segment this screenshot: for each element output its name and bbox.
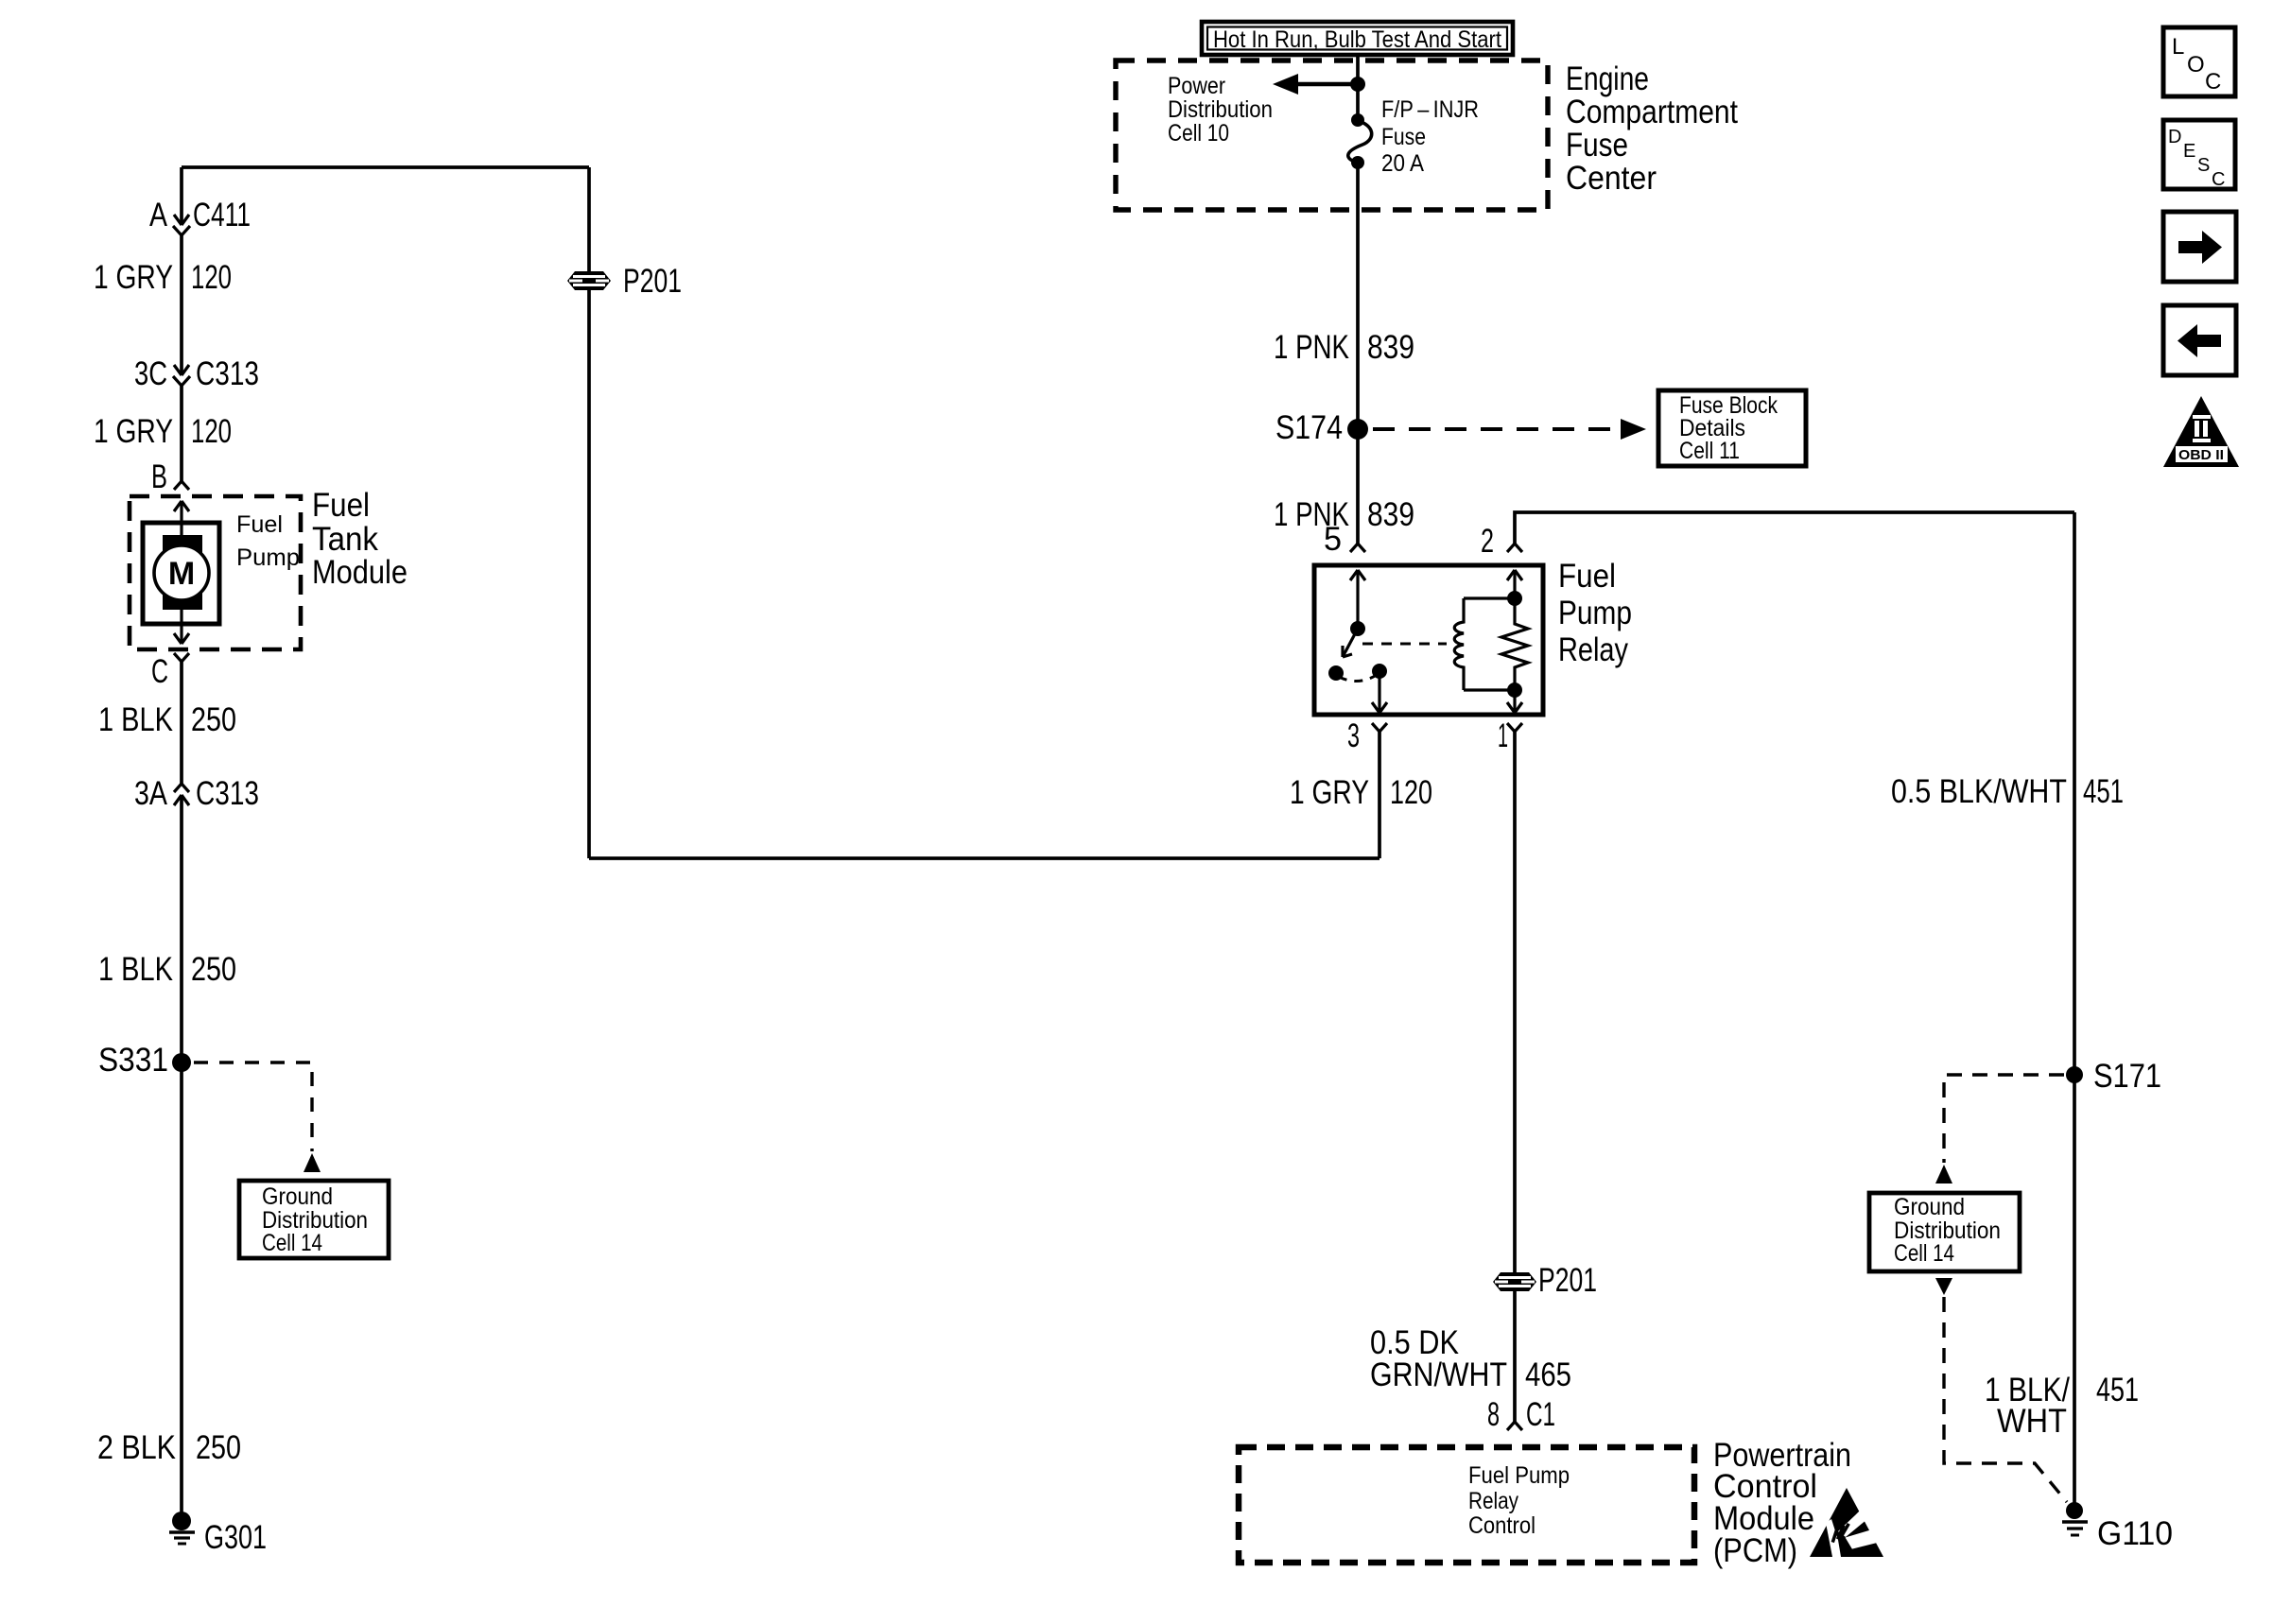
arrowhead triangle below ground distribution box — [1935, 1278, 1952, 1295]
svg-text:451: 451 — [2083, 773, 2124, 810]
relay switch dashed arc to pin3 contact — [1339, 675, 1377, 682]
LOC icon box — [2163, 27, 2235, 96]
arrow to power distribution — [1273, 74, 1356, 95]
svg-text:S: S — [2197, 155, 2210, 176]
svg-text:L: L — [2172, 34, 2184, 60]
svg-text:465: 465 — [1525, 1356, 1571, 1393]
svg-text:GRN/WHT: GRN/WHT — [1370, 1356, 1507, 1393]
svg-text:P201: P201 — [623, 263, 682, 300]
svg-text:G301: G301 — [204, 1519, 267, 1556]
svg-text:S171: S171 — [2093, 1058, 2161, 1095]
coil junction dots — [1507, 591, 1522, 606]
relay pin 3 connector below box — [1372, 723, 1387, 732]
fuse F/P-INJR 20A — [1348, 113, 1372, 169]
svg-text:120: 120 — [191, 413, 232, 450]
relay pin 3 internal arrow — [1372, 671, 1387, 713]
powertrain control module dashed box — [1239, 1447, 1694, 1563]
svg-text:Cell 14: Cell 14 — [262, 1230, 322, 1256]
svg-text:Distribution: Distribution — [1168, 96, 1273, 123]
ESD sensitive device symbol — [1810, 1488, 1886, 1557]
back arrow icon box — [2163, 305, 2236, 375]
svg-text:A: A — [149, 197, 168, 233]
wire 1 GRY 120 segment — [180, 235, 183, 374]
svg-text:Power: Power — [1168, 73, 1225, 99]
svg-text:20 A: 20 A — [1381, 150, 1424, 177]
connector C313 (pin 3C) — [173, 365, 190, 386]
svg-text:250: 250 — [191, 701, 236, 738]
svg-text:Pump: Pump — [1558, 595, 1632, 631]
svg-text:Fuel Pump: Fuel Pump — [1468, 1462, 1570, 1489]
svg-text:Fuse: Fuse — [1566, 127, 1628, 164]
engine compartment fuse center dashed box — [1116, 60, 1548, 210]
svg-text:WHT: WHT — [1997, 1403, 2067, 1440]
wire top horizontal from left branch to P201 branch — [182, 165, 589, 169]
relay coil — [1454, 598, 1515, 690]
ground G110 — [2062, 1502, 2088, 1535]
svg-text:1 GRY: 1 GRY — [1290, 774, 1369, 811]
arrowhead triangle at ground distribution box — [304, 1153, 321, 1172]
svg-text:Compartment: Compartment — [1566, 94, 1738, 130]
svg-text:C1: C1 — [1526, 1396, 1555, 1433]
svg-text:5: 5 — [1324, 521, 1342, 558]
dashed reference from S331 to ground distribution — [194, 1063, 312, 1151]
svg-text:120: 120 — [1390, 774, 1432, 811]
svg-text:S331: S331 — [98, 1042, 168, 1079]
svg-text:1 GRY: 1 GRY — [94, 259, 173, 296]
svg-text:Relay: Relay — [1558, 631, 1628, 668]
svg-text:Ground: Ground — [1894, 1194, 1965, 1220]
svg-text:2: 2 — [1481, 523, 1494, 560]
PCM pin 8 connector — [1507, 1422, 1522, 1430]
svg-text:S174: S174 — [1275, 409, 1343, 446]
wire from relay pin 1 down to PCM pin 8 — [1513, 732, 1517, 1422]
wire right vertical down to G110 — [2073, 512, 2076, 1511]
svg-text:Fuel: Fuel — [236, 511, 283, 538]
svg-text:1: 1 — [1498, 717, 1508, 754]
svg-text:3A: 3A — [134, 775, 168, 812]
dashed reference arrow from S174 to fuse block details — [1373, 427, 1620, 431]
svg-text:Ground: Ground — [262, 1183, 333, 1210]
svg-text:Fuel: Fuel — [312, 487, 370, 524]
svg-text:1 PNK: 1 PNK — [1274, 329, 1349, 366]
splice S171 — [2066, 1066, 2083, 1083]
fuel pump motor M — [143, 523, 219, 624]
wire vertical through P201 down to corner — [587, 167, 591, 858]
relay pin 3 contact dot — [1372, 664, 1387, 679]
svg-text:Cell 14: Cell 14 — [1894, 1240, 1954, 1267]
dashed reference from box down to G110 — [1944, 1297, 2067, 1502]
svg-text:451: 451 — [2096, 1372, 2139, 1408]
svg-text:0.5 BLK/WHT: 0.5 BLK/WHT — [1891, 773, 2067, 810]
DESC icon box — [2163, 120, 2235, 189]
wire 1 BLK 250 long segment to S331 — [180, 795, 183, 1512]
svg-text:C: C — [151, 653, 168, 690]
svg-text:839: 839 — [1367, 496, 1414, 533]
wire from hot box into fuse — [1356, 55, 1360, 119]
relay mechanical link dashed line — [1362, 643, 1447, 646]
connector C411 (pin A) — [173, 215, 190, 235]
relay pin 5 connector — [1350, 544, 1365, 552]
wire 1 BLK 250 segment — [180, 662, 183, 784]
OBD II icon triangle — [2163, 396, 2239, 467]
arrowhead triangle above ground distribution box — [1935, 1165, 1952, 1183]
svg-text:E: E — [2183, 141, 2195, 162]
wire arrow out of pump (pin C inside module) — [174, 610, 189, 644]
relay switch movable contact arrow — [1343, 629, 1358, 657]
relay pin 2 internal arrow to coil — [1507, 570, 1522, 598]
svg-text:120: 120 — [191, 259, 232, 296]
svg-text:Cell 10: Cell 10 — [1168, 120, 1229, 147]
svg-text:B: B — [151, 458, 167, 495]
svg-text:Fuel: Fuel — [1558, 558, 1616, 595]
svg-text:Fuse: Fuse — [1381, 124, 1426, 150]
svg-text:Pump: Pump — [236, 544, 300, 571]
dashed reference from S171 to ground distribution — [1944, 1075, 2064, 1163]
relay box — [1314, 565, 1543, 715]
splice S174 — [1347, 419, 1368, 440]
relay switch common dot — [1350, 621, 1365, 636]
svg-text:Control: Control — [1468, 1512, 1536, 1539]
svg-text:3: 3 — [1347, 717, 1360, 754]
wire arrow into pump (pin B inside module) — [174, 501, 189, 535]
svg-text:Center: Center — [1566, 160, 1657, 197]
relay switch throw dot — [1328, 665, 1344, 681]
inline connector P201 (lower) — [1493, 1272, 1536, 1291]
relay pin 1 internal arrow — [1507, 690, 1522, 713]
relay pin 2 connector — [1507, 544, 1522, 552]
splice S331 — [172, 1053, 191, 1072]
ground distribution cell 14 box (left) — [239, 1181, 389, 1258]
fuse block details cell 11 box — [1658, 390, 1806, 466]
wire left vertical upper segment to connector C411 — [180, 167, 183, 225]
svg-text:1 BLK: 1 BLK — [98, 701, 173, 738]
relay pin 1 connector below box — [1507, 723, 1522, 732]
svg-text:250: 250 — [196, 1429, 241, 1466]
connector C313 (pin 3A) — [174, 784, 189, 805]
svg-text:D: D — [2168, 127, 2181, 147]
wire horizontal 1 GRY run to relay pin 3 — [589, 856, 1379, 860]
forward arrow icon box — [2163, 212, 2236, 282]
svg-text:839: 839 — [1367, 329, 1414, 366]
svg-text:F/P – INJR: F/P – INJR — [1381, 96, 1479, 123]
svg-text:Hot In Run, Bulb Test And Star: Hot In Run, Bulb Test And Start — [1213, 26, 1501, 53]
svg-text:1 BLK: 1 BLK — [98, 951, 173, 988]
connector pin C of fuel tank module — [174, 653, 189, 662]
svg-text:OBD II: OBD II — [2178, 447, 2224, 463]
svg-text:(PCM): (PCM) — [1713, 1532, 1797, 1569]
svg-text:Engine: Engine — [1566, 60, 1649, 97]
svg-text:Cell 11: Cell 11 — [1679, 438, 1740, 464]
relay internal resistor — [1501, 598, 1528, 690]
svg-text:8: 8 — [1487, 1396, 1500, 1433]
svg-text:Tank: Tank — [312, 521, 378, 558]
node junction at power distribution tap — [1350, 77, 1365, 92]
svg-text:2 BLK: 2 BLK — [97, 1429, 176, 1466]
svg-text:Relay: Relay — [1468, 1488, 1518, 1514]
svg-text:O: O — [2187, 52, 2205, 78]
relay pin 5 internal arrow to switch — [1350, 570, 1365, 629]
svg-text:C411: C411 — [193, 197, 251, 233]
Hot In Run label box (double border) — [1202, 22, 1513, 55]
svg-text:C: C — [2205, 69, 2221, 95]
svg-text:P201: P201 — [1538, 1262, 1597, 1299]
svg-text:G110: G110 — [2097, 1515, 2173, 1552]
connector pin B of fuel tank module — [174, 481, 189, 490]
fuel tank module dashed box — [130, 496, 301, 649]
svg-text:Module: Module — [312, 554, 408, 591]
svg-text:C313: C313 — [196, 355, 259, 392]
wire 1 PNK 839 from fuse to relay pin 5 — [1356, 163, 1360, 544]
ground G301 — [169, 1512, 195, 1544]
ground distribution cell 14 box (right) — [1869, 1193, 2020, 1271]
wire vertical up into relay pin 3 — [1378, 732, 1381, 858]
svg-text:250: 250 — [191, 951, 236, 988]
wire 1 GRY 120 lower segment to pin B — [180, 386, 183, 481]
inline connector P201 (left) — [567, 271, 611, 290]
wire from relay pin 2 up and right to BLK/WHT branch — [1515, 512, 2074, 544]
svg-text:C313: C313 — [196, 775, 259, 812]
svg-text:C: C — [2212, 169, 2225, 190]
svg-text:M: M — [168, 556, 195, 592]
svg-text:3C: 3C — [134, 355, 167, 392]
svg-text:1 GRY: 1 GRY — [94, 413, 173, 450]
